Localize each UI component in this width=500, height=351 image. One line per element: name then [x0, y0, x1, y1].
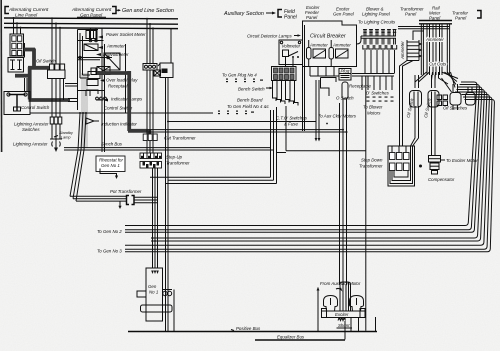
oil switch capsule 2	[428, 91, 439, 108]
shading: feeder bundle	[81, 73, 88, 148]
svg-text:To Lighting Circuits: To Lighting Circuits	[358, 20, 396, 25]
label: Alternating Current Gen Panel	[71, 7, 112, 17]
label: CTO Switches and Fuse	[276, 116, 308, 127]
svg-text:Voltmeter: Voltmeter	[282, 44, 301, 49]
CT junction row	[143, 64, 157, 71]
svg-text:Pot Transformer: Pot Transformer	[110, 189, 142, 194]
dashes: blower switches	[367, 97, 394, 102]
wire: panel top connections	[78, 28, 104, 42]
svg-text:Alternating Current: Alternating Current	[8, 7, 49, 12]
breaker element left	[307, 40, 326, 67]
svg-text:Line Panel: Line Panel	[15, 12, 38, 17]
transformer panel bus	[419, 21, 452, 24]
svg-text:Cut Transformer: Cut Transformer	[164, 136, 196, 141]
wire: synch bus pair	[64, 148, 274, 150]
dot: stray	[326, 123, 328, 125]
svg-text:Induction Indicator: Induction Indicator	[101, 122, 137, 127]
svg-text:Panel: Panel	[405, 12, 417, 17]
dots: gen field	[218, 111, 254, 115]
wire: control switch risers	[25, 78, 28, 92]
bracket: AC line panel	[5, 7, 9, 14]
wire: exciter to buses	[345, 317, 376, 340]
label: Transfer Panel	[452, 11, 469, 21]
label: Ammeter right	[332, 43, 351, 48]
oil switch capsule 1	[410, 91, 422, 108]
blower comb bus	[352, 74, 394, 77]
svg-text:Over load Relay: Over load Relay	[106, 78, 138, 83]
svg-text:Motors: Motors	[367, 111, 381, 116]
svg-text:To Gen Field No 4 &c: To Gen Field No 4 &c	[227, 104, 270, 109]
wire: meter pair	[78, 56, 113, 60]
relay box	[88, 72, 100, 79]
exciter machine	[322, 282, 366, 318]
breaker element right	[329, 40, 348, 67]
svg-text:Gen Panel: Gen Panel	[333, 12, 355, 17]
wire: drops to cut transformer	[146, 18, 154, 64]
wire: capsule 2 to compensator	[432, 106, 436, 156]
scan edge left	[0, 0, 2, 152]
svg-text:Synch Bus: Synch Bus	[101, 142, 123, 147]
svg-text:Cut Outs: Cut Outs	[429, 62, 447, 67]
label: Millivoltmeter	[96, 52, 129, 57]
label: From Auxiliary Motor	[320, 281, 361, 286]
svg-text:Compensator: Compensator	[428, 177, 455, 182]
generator No 1	[137, 268, 172, 321]
panel clutter wires	[80, 33, 98, 96]
label: Control Switch panel	[104, 106, 133, 111]
svg-text:Rheostat for: Rheostat for	[99, 158, 123, 163]
meter box F	[158, 63, 173, 78]
svg-text:Circuit Detector Lamps: Circuit Detector Lamps	[247, 34, 292, 39]
svg-text:Power Socket Meter: Power Socket Meter	[106, 32, 146, 37]
bracket: AC gen panel	[112, 7, 116, 14]
shunt coil	[338, 318, 346, 321]
label: Power Socket Meter	[98, 32, 146, 39]
wire: synch bus east segment	[286, 106, 366, 151]
svg-text:Exciter: Exciter	[335, 312, 349, 317]
svg-text:Plug: Plug	[341, 69, 350, 74]
label: Control Switch	[21, 105, 50, 110]
dots: gen plug	[226, 79, 263, 83]
wire: tank to panel	[65, 84, 78, 87]
label: Gen No 1	[148, 284, 159, 295]
svg-text:Indicator Lamps: Indicator Lamps	[111, 97, 143, 102]
power socket meter box	[86, 31, 97, 39]
svg-text:Ammeter: Ammeter	[106, 44, 125, 49]
wire: transformer feeders	[400, 61, 436, 147]
lightning arrester switch fuses	[50, 117, 62, 124]
svg-text:& Fuse: & Fuse	[284, 122, 298, 127]
svg-text:To Gen No 3: To Gen No 3	[97, 249, 122, 254]
label: O Switch	[336, 96, 354, 101]
wire: AC bus line 2	[4, 22, 178, 25]
label: To Aux Ckty Motors	[318, 114, 357, 119]
svg-text:Alternating Current: Alternating Current	[71, 7, 112, 12]
gen lead arrows	[151, 271, 159, 275]
wire: gen to positive bus	[173, 290, 175, 332]
wire: AC bus line 3	[4, 28, 178, 29]
label: Alternating Current Line Panel	[8, 7, 49, 17]
voltmeter switch	[283, 50, 300, 67]
oil switch contacts	[50, 64, 65, 70]
wire: band to panel	[68, 99, 78, 102]
label: Oil Switch	[36, 59, 56, 64]
svg-text:Ammeter: Ammeter	[400, 41, 405, 60]
wire: positive risers	[166, 78, 169, 332]
circuit breaker panel frame	[303, 21, 357, 131]
wire: synch U-turn	[150, 107, 286, 184]
dots: gen feeder taps	[152, 237, 157, 242]
wire: gen leads	[153, 168, 158, 268]
label: Induction Indicator	[101, 122, 137, 127]
lighting comb teeth	[363, 30, 397, 50]
step-up transformer	[140, 153, 162, 168]
millivoltmeter box	[91, 67, 110, 75]
svg-text:Step Down: Step Down	[361, 158, 383, 163]
svg-text:Oil Switches: Oil Switches	[443, 106, 468, 111]
svg-text:Bench Switch: Bench Switch	[238, 87, 265, 92]
svg-text:Panel: Panel	[306, 15, 318, 20]
lighting comb bus	[357, 36, 397, 44]
cut transformer coils	[143, 134, 157, 153]
label: Pot Transformer	[110, 189, 142, 194]
svg-text:Lighting Panel: Lighting Panel	[362, 12, 391, 17]
svg-text:Switches: Switches	[22, 127, 40, 132]
label: Oil Switch vertical 2	[423, 98, 432, 119]
label: Ammeter	[98, 44, 125, 50]
CTO switch comb	[273, 81, 299, 106]
svg-text:Transformer: Transformer	[166, 161, 190, 166]
svg-text:Panel: Panel	[429, 16, 441, 21]
rail bundle fan-out	[415, 72, 458, 92]
thick riser: panel to synch feeder	[97, 71, 150, 135]
box G with X	[154, 70, 161, 76]
label: Transformer Panel	[400, 7, 424, 17]
wire: aux motor lead	[317, 287, 320, 332]
control switch	[4, 92, 30, 115]
oil switch tank	[48, 70, 66, 79]
lightning arrester	[50, 139, 62, 152]
svg-text:O Switch: O Switch	[336, 96, 354, 101]
dot: junction	[419, 165, 422, 168]
label: Gen and Line Section	[116, 8, 174, 14]
wire: blower panel link	[321, 76, 366, 331]
label: Receptacle	[349, 84, 372, 89]
wire: breaker drops	[310, 67, 339, 77]
disconnect switch lower left	[8, 58, 24, 73]
label: To Gen No 3	[97, 249, 122, 254]
label: Step Down Transformer	[359, 158, 383, 169]
label: Indicator Lamps	[96, 97, 143, 102]
wire: oil tank drop	[63, 79, 65, 101]
line panel frame	[78, 30, 99, 111]
rail meter bundle	[398, 24, 450, 75]
wire: aux motor drops	[315, 80, 321, 142]
svg-text:To Exciter Motor: To Exciter Motor	[446, 158, 478, 163]
positive bus	[128, 326, 377, 332]
label: Ammeter left	[309, 43, 328, 48]
svg-text:Lightning Arrester: Lightning Arrester	[14, 122, 49, 127]
svg-text:Gen and Line Section: Gen and Line Section	[122, 8, 174, 14]
svg-text:Lightning Arrester: Lightning Arrester	[13, 142, 48, 147]
wire: exciter feeder pair	[340, 99, 348, 285]
oil switch capsule 4	[466, 87, 476, 105]
wire: bus end drop	[170, 29, 172, 63]
rheostat box	[96, 156, 125, 179]
compensator	[429, 156, 441, 175]
label: Auxiliary Section	[223, 11, 276, 17]
detector lamp panel box	[279, 40, 303, 65]
label: Compensator	[428, 177, 455, 182]
meter switch box E	[104, 53, 120, 70]
svg-text:Gen No 1: Gen No 1	[101, 163, 120, 168]
svg-text:Lamp: Lamp	[61, 136, 71, 140]
label: Ammeter rail	[425, 37, 444, 42]
svg-text:Gen Panel: Gen Panel	[80, 12, 103, 17]
fuse bank upper left	[10, 34, 24, 56]
wire: oil switch to arrester switches	[52, 79, 60, 118]
wire: capsule 1 to stepdown	[411, 106, 419, 146]
label: Blower and Lighting Panel	[362, 7, 391, 17]
svg-text:To Aux Ckty Motors: To Aux Ckty Motors	[318, 114, 357, 119]
label: Step-Up Transformer	[166, 155, 190, 166]
label: Ammeter vertical	[400, 41, 405, 60]
step-down transformer box	[388, 146, 415, 186]
label: Plug	[341, 69, 350, 74]
label: To Gen No 2	[97, 229, 122, 234]
wire: drops to oil switch	[51, 17, 61, 64]
label: Cut Outs rail	[429, 62, 447, 67]
bracket: field panel	[278, 10, 282, 18]
label: Over load Relay Receptacle	[100, 78, 138, 89]
svg-text:Ammeter: Ammeter	[425, 37, 444, 42]
svg-text:Circuit Breaker: Circuit Breaker	[310, 34, 346, 40]
label: Cut Transformer	[164, 136, 196, 141]
wire: blower feeders	[362, 76, 392, 90]
label: Oil Switches	[443, 106, 468, 111]
label: Lightning Arrester	[13, 142, 48, 147]
svg-text:Panel: Panel	[284, 15, 298, 21]
label: To Gen Plug No 4	[222, 73, 257, 78]
wire: bank stub	[24, 43, 26, 58]
rail ammeter ladder	[407, 31, 424, 61]
svg-text:Equalizer Bus: Equalizer Bus	[277, 335, 305, 340]
svg-text:Transformer: Transformer	[359, 164, 383, 169]
oil switch capsule 3	[450, 84, 461, 110]
plug box	[339, 69, 351, 81]
label: Exciter Gen Panel	[333, 7, 355, 17]
wire: AC bus line 1	[4, 17, 178, 20]
wire: synch feeder pair	[148, 130, 346, 132]
label: Field Panel	[284, 9, 298, 21]
svg-text:D' Switches: D' Switches	[366, 91, 390, 96]
wire: pot transformer feeders	[70, 112, 126, 209]
detector lamp bank	[272, 67, 297, 81]
label: Exciter	[335, 312, 349, 317]
wire: drops to fuse bank	[13, 17, 22, 34]
wire: comb interconnects	[365, 50, 395, 74]
label: Voltmeter	[282, 44, 301, 49]
svg-text:Ammeter: Ammeter	[309, 43, 328, 48]
svg-text:To Gen No 2: To Gen No 2	[97, 229, 122, 234]
label: Circuit Breaker	[310, 34, 346, 40]
label: D Switches	[366, 91, 390, 96]
svg-text:To Gen Plug No 4: To Gen Plug No 4	[222, 73, 257, 78]
svg-text:Gen: Gen	[148, 284, 157, 289]
label: To Lighting Circuits	[358, 20, 396, 25]
label: Standby Lamp	[54, 131, 74, 140]
label: Circuit Detector Lamps	[247, 34, 301, 39]
label: Bench Switch	[238, 87, 273, 92]
svg-text:Positive Bus: Positive Bus	[236, 326, 261, 331]
label: Bench Board	[237, 98, 263, 103]
right feeder bundle with corners	[125, 82, 494, 252]
svg-text:Control Switch: Control Switch	[21, 105, 50, 110]
wire: control switch feeder	[30, 112, 213, 114]
label: Lightning Arrester Switches	[14, 122, 49, 133]
oil switch contact cluster	[437, 95, 448, 106]
wire: panel inner risers	[102, 41, 105, 153]
wire: to arrester	[52, 124, 60, 139]
label: To Exciter Motor	[441, 158, 479, 163]
label: To Gen Field No 4	[227, 104, 270, 109]
wire: aux feeder branch	[167, 121, 316, 123]
label: To Blower Motors	[363, 105, 383, 116]
equalizer bus	[255, 335, 345, 341]
svg-text:Oil Switch: Oil Switch	[36, 59, 56, 64]
label: Shunt	[337, 323, 353, 328]
label: Synch Bus	[101, 142, 123, 147]
pot transformer element	[127, 196, 158, 205]
svg-text:No 1: No 1	[149, 290, 159, 295]
svg-text:Shunt: Shunt	[338, 323, 350, 328]
svg-text:Receptacle: Receptacle	[108, 84, 131, 89]
svg-text:Panel: Panel	[455, 16, 467, 21]
label: Rail Meter Panel	[429, 6, 441, 21]
svg-text:Bench Board: Bench Board	[237, 98, 263, 103]
label: Rheostat for Gen No 1	[99, 158, 123, 169]
svg-text:Standby: Standby	[59, 131, 74, 135]
thick bus: bank to control switch	[15, 49, 70, 101]
svg-text:Auxiliary Section: Auxiliary Section	[223, 11, 264, 17]
indicator lamp circles	[78, 44, 126, 113]
ammeter box	[84, 44, 98, 51]
wire: CT row to cut transformer	[147, 70, 153, 134]
svg-text:Ammeter: Ammeter	[332, 43, 351, 48]
label: Oil Switch vertical 1	[406, 98, 415, 119]
bracket: transfer panel	[477, 11, 481, 19]
synchronism indicator flag	[86, 118, 99, 124]
receptacle capsule	[342, 82, 348, 99]
label: Exciter Feeder Panel	[305, 5, 320, 20]
